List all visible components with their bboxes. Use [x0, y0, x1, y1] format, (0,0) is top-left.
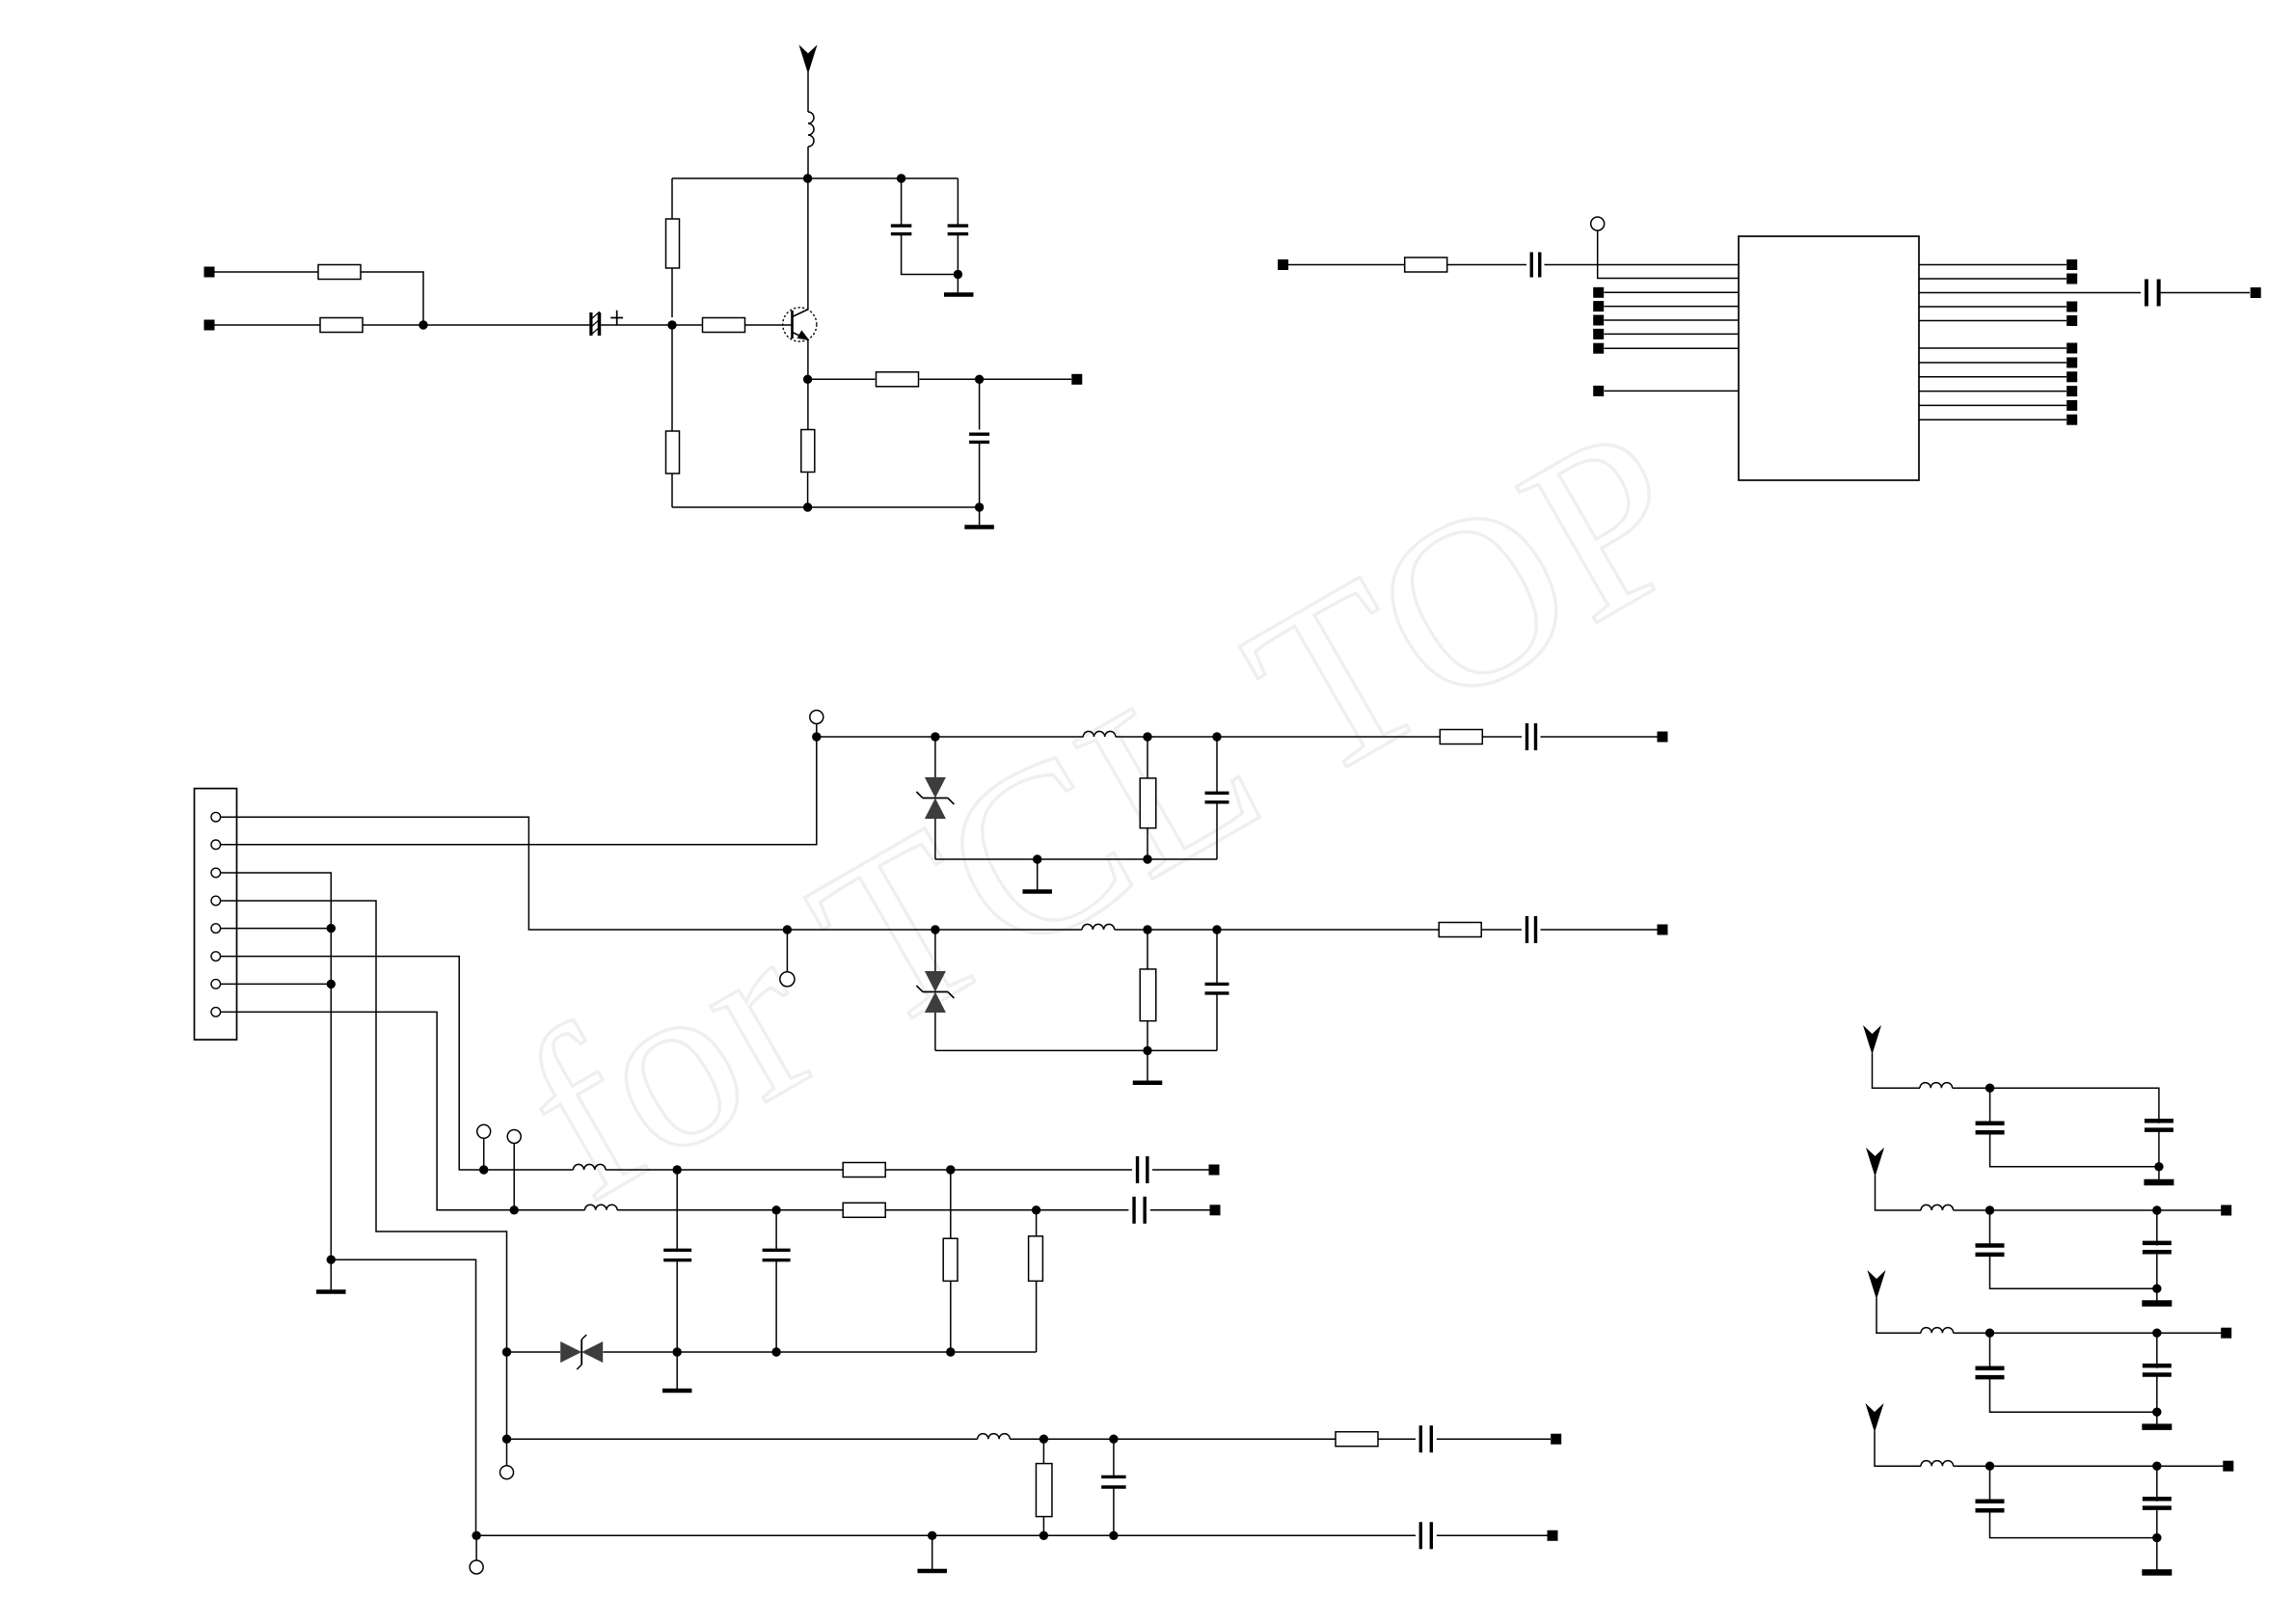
node left pad 4 [1593, 329, 1604, 339]
capacitor C6 series [2146, 280, 2159, 307]
wire ch1 lower rail [935, 858, 1217, 860]
inductor L4 [573, 1164, 606, 1170]
wire [885, 1209, 1128, 1211]
IC U1 [1739, 236, 1919, 480]
ground [964, 507, 994, 528]
wire [507, 1438, 978, 1440]
capacitor Cb5 [2143, 1499, 2172, 1507]
wire ch2 lower rail [935, 1049, 1217, 1051]
wire [1919, 292, 2141, 294]
capacitor C9 series [1527, 916, 1536, 943]
wire [775, 1260, 777, 1352]
capacitor Cb3 [2143, 1243, 2172, 1252]
terminal CT4 [477, 1124, 491, 1138]
capacitor C5 series [1531, 253, 1540, 278]
ground [2142, 1569, 2172, 1576]
wire [1036, 1210, 1038, 1236]
junction [673, 1347, 682, 1356]
junction [1032, 1205, 1040, 1214]
junction [946, 1165, 955, 1174]
wire [1989, 1333, 1991, 1368]
junction [2152, 1408, 2161, 1417]
wire [1919, 264, 2066, 266]
wire [1605, 306, 1740, 308]
wire [1541, 929, 1658, 931]
wire pin2 net [221, 737, 817, 845]
capacitor Ca2 [1976, 1123, 2005, 1132]
ground [944, 292, 974, 297]
wire [1954, 1332, 2222, 1334]
wire [1919, 404, 2066, 406]
wire [1919, 278, 2066, 280]
inductor L6 [978, 1434, 1011, 1440]
wire [950, 1170, 952, 1238]
junction [2152, 1285, 2161, 1293]
wire collector [807, 178, 809, 310]
junction [1143, 925, 1151, 934]
junction [931, 732, 939, 741]
wire emitter [807, 339, 809, 429]
junction [771, 1205, 780, 1214]
junction [783, 925, 792, 934]
pin 5 circle [211, 924, 221, 934]
capacitor Ca3 [1976, 1246, 2005, 1255]
node right pad 7 [2066, 358, 2077, 368]
wire [215, 271, 319, 273]
wire [1042, 1439, 1044, 1463]
wire [1605, 319, 1740, 321]
resistor R7 [877, 372, 919, 387]
resistor R4 [666, 431, 680, 474]
node TP5 pad [1278, 259, 1288, 270]
junction [2152, 1533, 2161, 1542]
wire [1437, 1438, 1551, 1440]
wire base [745, 324, 793, 326]
wire [676, 1260, 678, 1352]
capacitor C1 polarized [591, 311, 624, 336]
antenna ANT3 [1867, 1150, 1883, 1176]
junction [975, 502, 984, 511]
resistor R16 [1029, 1236, 1043, 1282]
node left pad 3 [1593, 315, 1604, 326]
ground [917, 1535, 947, 1571]
wire [1990, 1510, 2157, 1537]
node left pad 5 [1593, 343, 1604, 354]
junction [327, 980, 336, 988]
junction [928, 1531, 936, 1540]
ground [1133, 1050, 1163, 1082]
wire [672, 324, 703, 326]
capacitor C4 [969, 434, 989, 442]
inductor L8 [1921, 1204, 1954, 1210]
terminal CT5 [507, 1130, 521, 1144]
wire [215, 324, 321, 326]
node TP1 input pad [204, 267, 215, 278]
wire [1875, 1431, 1921, 1467]
wire [1919, 362, 2066, 364]
wire [1990, 1377, 2157, 1412]
junction [1143, 1046, 1151, 1055]
junction [1039, 1531, 1048, 1540]
pin 6 circle [211, 952, 221, 961]
wire [2156, 1333, 2158, 1368]
wire [1541, 736, 1658, 738]
wire [817, 736, 1084, 738]
wire [2156, 1466, 2158, 1502]
junction [2152, 1329, 2161, 1338]
capacitor Cb2 [2145, 1121, 2173, 1129]
wire [1605, 291, 1740, 293]
ground [2142, 1423, 2172, 1430]
inductor L1 [808, 112, 814, 147]
wire [934, 1013, 936, 1050]
resistor R9 [1140, 778, 1156, 828]
wire [1437, 1534, 1548, 1536]
wire [1216, 802, 1218, 859]
node ch4 pad [1209, 1165, 1220, 1176]
junction [1985, 1084, 1994, 1093]
pin 3 circle [211, 868, 221, 878]
wire [1989, 1210, 1991, 1246]
wire [507, 1351, 561, 1353]
junction [2152, 1205, 2161, 1214]
wire [1919, 347, 2066, 349]
wire [1147, 828, 1148, 859]
node right pad 1 [2066, 259, 2077, 270]
node ant4 pad [2221, 1328, 2231, 1339]
wire [1919, 376, 2066, 378]
node right pad 2 [2066, 274, 2077, 284]
wire [920, 378, 1072, 380]
junction [418, 320, 427, 329]
junction [931, 925, 939, 934]
wire [475, 1535, 477, 1559]
wire [1482, 736, 1522, 738]
wire [1605, 333, 1740, 335]
ground [662, 1352, 692, 1391]
junction [1109, 1531, 1118, 1540]
wire [606, 1169, 843, 1171]
resistor R6 emitter [801, 430, 815, 473]
wire [1152, 1169, 1209, 1171]
node right pad 6 [2066, 343, 2077, 354]
inductor L2 [1083, 731, 1116, 737]
wire [2158, 1130, 2160, 1182]
wire [775, 1210, 777, 1251]
node right pad 8 [2066, 371, 2077, 382]
wire pin8 net [221, 1012, 515, 1209]
wire VCC rail [672, 177, 958, 179]
wire [957, 178, 958, 226]
node TP6 pad [2251, 287, 2261, 298]
antenna ANT5 [1867, 1405, 1883, 1431]
wire [816, 724, 818, 738]
wire [1989, 1466, 1991, 1502]
wire [1919, 391, 2066, 392]
wire [1873, 1053, 1921, 1089]
wire [513, 1144, 515, 1210]
capacitor C17 series [1420, 1522, 1431, 1549]
resistor R12 [1439, 923, 1481, 937]
wire [934, 819, 936, 859]
wire [1598, 230, 1739, 279]
antenna ANT2 [1864, 1027, 1880, 1053]
wire [1919, 419, 2066, 420]
junction [673, 1165, 682, 1174]
wire [1288, 264, 1405, 266]
wire [361, 272, 423, 325]
wire [483, 1138, 485, 1170]
resistor R5 base [703, 318, 745, 333]
terminal CT6 [500, 1466, 514, 1479]
junction [954, 270, 962, 279]
wire [979, 379, 981, 429]
wire [1113, 1439, 1115, 1476]
junction [502, 1435, 511, 1444]
junction [1109, 1435, 1118, 1444]
terminal CT7 [470, 1560, 483, 1574]
junction [510, 1205, 519, 1214]
inductor L5 [585, 1204, 618, 1210]
wire ch3 rail [603, 1351, 1036, 1353]
wire pin4 net [221, 901, 507, 1439]
wire [787, 929, 1082, 931]
wire [1115, 929, 1440, 931]
junction [1985, 1205, 1994, 1214]
capacitor C10 [1205, 984, 1229, 992]
wire [1378, 1438, 1417, 1440]
terminal CT3 [780, 972, 795, 987]
pin 8 circle [211, 1008, 221, 1017]
wire pin7 [221, 983, 332, 985]
transistor Q1 [783, 308, 817, 341]
antenna ANT1 [800, 46, 817, 72]
capacitor C2 [891, 226, 912, 234]
capacitor C14 [763, 1250, 791, 1259]
inductor L9 [1921, 1328, 1954, 1334]
node right pad 9 [2066, 386, 2077, 396]
wire [1042, 1517, 1044, 1536]
wire [506, 1439, 508, 1466]
junction emitter node [803, 375, 812, 384]
junction [975, 375, 984, 384]
wire [807, 147, 809, 178]
resistor R1 [318, 265, 361, 280]
wire [601, 324, 672, 326]
wire [671, 325, 673, 507]
node left pad 2 [1593, 301, 1604, 311]
resistor R11 [1140, 969, 1156, 1021]
capacitor C8 [1205, 793, 1229, 802]
wire [1447, 264, 1526, 266]
node ch5 pad [1210, 1204, 1221, 1215]
wire [1605, 347, 1740, 349]
junction [1033, 854, 1041, 863]
node ch2 pad [1658, 925, 1668, 935]
ground [2144, 1179, 2173, 1186]
wire pin5 [221, 928, 332, 930]
wire [1116, 736, 1440, 738]
wire [934, 737, 936, 777]
wire pin3 net [221, 873, 332, 1259]
junction [502, 1347, 511, 1356]
junction [812, 732, 821, 741]
wire [1990, 1132, 2159, 1167]
resistor R15 [943, 1238, 958, 1281]
inductor L3 [1082, 924, 1115, 930]
node ant3 pad [2221, 1205, 2231, 1216]
terminal CT2 [810, 711, 823, 724]
pin 1 circle [211, 812, 221, 822]
junction [472, 1531, 480, 1540]
junction [1212, 732, 1221, 741]
junction [803, 502, 812, 511]
junction base node [667, 320, 676, 329]
antenna ANT4 [1869, 1272, 1885, 1298]
junction [897, 174, 905, 182]
ground [2142, 1300, 2172, 1307]
pin 4 circle [211, 896, 221, 906]
node ch6 pad [1551, 1434, 1561, 1445]
junction [803, 174, 812, 182]
junction [1143, 854, 1151, 863]
node right pad 11 [2066, 415, 2077, 425]
inductor L10 [1921, 1461, 1954, 1467]
resistor R10 [1440, 730, 1482, 744]
junction [1985, 1329, 1994, 1338]
resistor R13 [843, 1163, 885, 1177]
node TP2 input pad [204, 320, 215, 331]
wire [807, 72, 809, 112]
wire [1989, 1088, 1991, 1123]
wire [901, 178, 903, 226]
wire [1147, 737, 1148, 778]
wire [1147, 930, 1148, 969]
wire [1876, 1298, 1921, 1334]
wire [934, 930, 936, 971]
junction [1039, 1435, 1048, 1444]
wire [1010, 1438, 1336, 1440]
capacitor C13 [663, 1250, 691, 1259]
junction [2152, 1462, 2161, 1471]
wire pin1 net [221, 817, 788, 930]
wire [1919, 306, 2066, 308]
junction [1143, 732, 1151, 741]
wire [1216, 930, 1218, 985]
wire [950, 1281, 952, 1352]
wire [1954, 1465, 2224, 1467]
wire emitter ground rail [672, 506, 980, 508]
wire [786, 930, 788, 972]
pin 2 circle [211, 840, 221, 850]
junction [1212, 925, 1221, 934]
wire [671, 178, 673, 317]
node ch1 pad [1658, 732, 1668, 743]
wire [676, 1170, 678, 1251]
wire [2156, 1508, 2158, 1573]
wire [957, 234, 958, 293]
wire [885, 1169, 1132, 1171]
junction [479, 1165, 488, 1174]
wire [1150, 1209, 1210, 1211]
wire [2156, 1252, 2158, 1303]
wire [808, 378, 876, 380]
wire [484, 1169, 574, 1171]
dual diode D3 [560, 1335, 603, 1369]
junction [946, 1347, 955, 1356]
junction [771, 1347, 780, 1356]
resistor R14 [843, 1203, 885, 1217]
wire [902, 234, 958, 275]
wire [1147, 1021, 1148, 1051]
wire [331, 1259, 475, 1535]
capacitor C12 series [1134, 1197, 1145, 1224]
wire [423, 324, 590, 326]
node ant5 pad [2223, 1461, 2233, 1472]
node left pad 6 [1593, 386, 1604, 396]
resistor R3 [666, 219, 680, 268]
capacitor Cb4 [2143, 1366, 2172, 1374]
wire [1876, 1176, 1922, 1211]
wire [1919, 320, 2066, 322]
wire bottom line [476, 1534, 1416, 1536]
wire [1481, 929, 1522, 931]
resistor R17 [1036, 1464, 1052, 1517]
capacitor C16 series [1420, 1425, 1431, 1452]
wire [807, 473, 809, 508]
wire [1113, 1487, 1115, 1535]
terminal CT1 [1591, 217, 1605, 230]
ground [316, 1259, 346, 1291]
junction [327, 1256, 336, 1264]
wire [1954, 1209, 2222, 1211]
node bottom pad [1548, 1530, 1558, 1541]
wire [2159, 292, 2250, 294]
wire [1216, 993, 1218, 1050]
resistor R2 [320, 318, 363, 333]
wire pin6 net [221, 957, 484, 1170]
wire [1605, 390, 1740, 392]
inductor L7 [1920, 1083, 1953, 1089]
TVS diode D1 [916, 777, 954, 819]
capacitor C11 series [1138, 1156, 1147, 1183]
junction [2154, 1162, 2163, 1171]
watermark [481, 374, 1732, 1251]
capacitor Ca4 [1976, 1368, 2005, 1377]
wire [1545, 264, 1740, 266]
wire [617, 1209, 843, 1211]
wire [363, 324, 423, 326]
resistor R8 [1405, 257, 1447, 272]
connector J1 [195, 789, 237, 1041]
node right pad 4 [2066, 302, 2077, 312]
wire [2156, 1375, 2158, 1427]
node right pad 10 [2066, 400, 2077, 411]
resistor R18 [1336, 1432, 1378, 1447]
TVS diode D2 [916, 971, 954, 1013]
capacitor C15 [1101, 1476, 1126, 1487]
capacitor C3 [948, 226, 969, 234]
node TP4 output pad [1071, 374, 1082, 385]
wire [1953, 1088, 2159, 1123]
wire [1216, 737, 1218, 793]
junction [327, 924, 336, 933]
wire [1036, 1281, 1038, 1352]
junction [1985, 1462, 1994, 1471]
node left pad 1 [1593, 287, 1604, 298]
wire [514, 1209, 584, 1211]
capacitor C7 series [1527, 723, 1536, 750]
